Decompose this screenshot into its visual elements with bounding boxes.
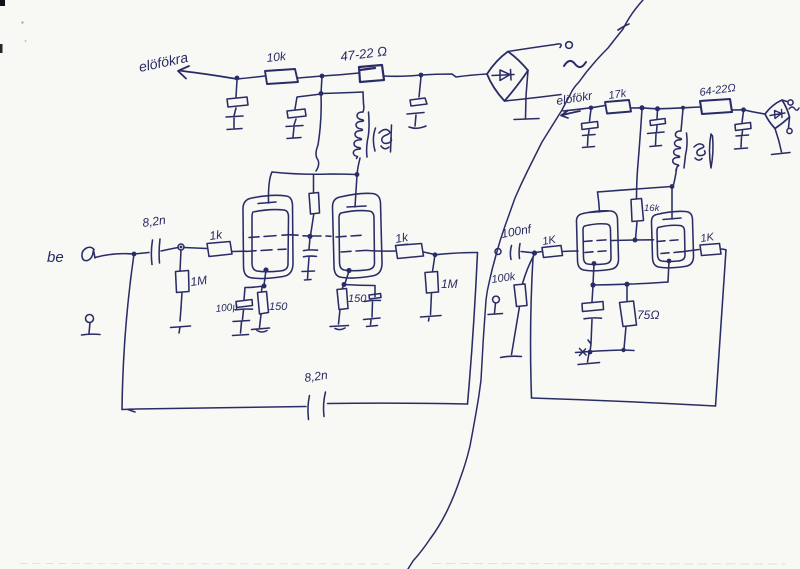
wire grid bus right circuit xyxy=(612,239,654,242)
transformer T2 lead top xyxy=(681,109,683,131)
tube V1 inner plate xyxy=(252,210,289,272)
wire R10 to J11 xyxy=(631,107,642,109)
wire J12 to J13 xyxy=(658,108,684,109)
arrow to előfok xyxy=(178,66,237,79)
ground C7 xyxy=(364,302,381,327)
tube V4 grid dashes lower xyxy=(661,252,682,254)
wire bridge right to ground xyxy=(526,71,529,119)
ground C3 xyxy=(407,113,426,129)
resistor R11 64-22 ohm xyxy=(700,99,732,114)
wire R5 to V1 grid xyxy=(232,250,246,252)
svg-text:1M: 1M xyxy=(189,273,207,289)
feedback loop wire bottom right xyxy=(328,402,468,405)
ground R9 xyxy=(421,316,442,322)
transformer T2 secondary scribble xyxy=(694,134,713,168)
transformer T1 secondary scribble xyxy=(373,128,391,151)
tube V4 envelope xyxy=(652,211,694,268)
node J3 xyxy=(419,73,424,78)
ground C6 xyxy=(233,310,250,336)
resistor R8 1k output xyxy=(366,244,424,259)
node J13 xyxy=(681,106,685,110)
capacitor C7 xyxy=(365,294,382,302)
ground C2 xyxy=(286,119,303,139)
feedback loop wire top xyxy=(435,253,478,255)
ground terminal q xyxy=(86,315,94,323)
loop left side xyxy=(531,253,535,398)
node J8 xyxy=(178,244,184,250)
capacitor C9 xyxy=(582,109,599,130)
page divider wavy line xyxy=(408,0,643,569)
svg-text:10k: 10k xyxy=(266,49,288,65)
ground symbol right xyxy=(578,353,600,365)
wire rail R1-R2 xyxy=(298,73,359,78)
diode D2 symbol xyxy=(770,110,785,119)
cathode node V2 xyxy=(342,282,347,287)
transformer T1 primary coil xyxy=(353,112,363,159)
ground R7 xyxy=(330,326,349,330)
node J5 xyxy=(355,172,360,177)
wire R13 to V3 grid xyxy=(563,250,579,253)
capacitor C12 100nf xyxy=(510,244,520,260)
node J9 xyxy=(433,252,438,257)
wire J11 down to R12 xyxy=(637,109,643,199)
tube V2 grid dashes upper xyxy=(336,235,361,237)
svg-text:1M: 1M xyxy=(441,277,458,291)
feedback loop wire bottom left xyxy=(122,407,306,413)
node J17 xyxy=(532,250,537,255)
tube V3 grid dashes lower xyxy=(585,251,606,253)
wire J7 to C5 xyxy=(134,253,149,255)
input terminal xyxy=(82,247,95,260)
feedback loop wire right xyxy=(468,253,478,405)
wire grid bus right of V1 xyxy=(290,235,308,236)
wire J8 to R5 xyxy=(184,248,207,249)
resistor R7 150 xyxy=(337,285,348,325)
wire C13 down xyxy=(588,320,592,352)
resistor R12 16k xyxy=(631,199,644,240)
node J21 xyxy=(621,348,625,352)
wire J11 to J12 xyxy=(642,108,658,109)
capacitor C3 xyxy=(410,77,427,106)
wire J2 down to J4 xyxy=(321,76,322,94)
transformer T2 bottom lead xyxy=(673,169,677,187)
svg-text:150: 150 xyxy=(269,301,288,313)
svg-text:1K: 1K xyxy=(541,234,557,248)
resistor R1 10k xyxy=(265,69,298,84)
capacitor C10 xyxy=(650,110,666,126)
AC terminal D2 bottom xyxy=(789,117,790,128)
tube V1 grid dashes lower xyxy=(246,249,286,251)
tube V2 inner plate xyxy=(339,211,375,271)
svg-text:17k: 17k xyxy=(608,88,628,102)
tube V1 grid dashes upper xyxy=(249,235,289,238)
node J6 xyxy=(307,234,312,239)
tube V2 envelope xyxy=(333,193,383,278)
wire bridge to AC terminal xyxy=(508,44,561,52)
svg-text:be: be xyxy=(47,249,64,266)
tube V1 cathode xyxy=(263,267,268,272)
ground wire right circuit xyxy=(576,349,635,356)
ground R4 xyxy=(171,308,191,333)
ground D2 xyxy=(772,153,791,155)
wire V4 anode lead xyxy=(663,187,681,220)
node J2 xyxy=(320,74,325,79)
capacitor C4 mid xyxy=(304,238,318,257)
wire J10 to R10 xyxy=(591,106,605,108)
cathode node V1 xyxy=(262,284,267,289)
transformer T1 bottom lead xyxy=(357,158,360,174)
paper speck 2 xyxy=(25,40,27,42)
wire cathode V1 branch left xyxy=(244,286,264,300)
resistor R4 1M input xyxy=(176,250,190,308)
transformer T1 primary lead xyxy=(362,92,365,112)
capacitor C6 100u xyxy=(236,300,253,310)
node J14 xyxy=(741,107,746,112)
input terminal right xyxy=(495,249,501,255)
wire J14 to bridge D2 xyxy=(744,110,766,114)
tube V1 envelope xyxy=(243,195,293,278)
node J15 xyxy=(633,238,638,243)
node J19 xyxy=(624,282,629,287)
ground C11 xyxy=(735,131,749,149)
node J11 xyxy=(640,105,645,110)
resistor R2 47-22 ohm xyxy=(359,65,384,82)
bridge rectifier D1 xyxy=(487,52,528,102)
AC symbol xyxy=(564,61,586,67)
anode bus right xyxy=(598,187,673,193)
wire bridge bottom to right page xyxy=(505,95,562,102)
tube V4 cathode xyxy=(667,259,672,264)
wire rail R2-bridge xyxy=(384,74,487,77)
ground bridge D1 xyxy=(514,119,539,120)
arrow right rail xyxy=(561,111,580,119)
node J20 xyxy=(588,350,593,355)
resistor R16 1K output xyxy=(683,244,721,256)
bottom scan edge xyxy=(20,563,390,566)
capacitor C13 electrolytic xyxy=(582,286,604,319)
AC symbol small xyxy=(789,107,799,110)
svg-text:150: 150 xyxy=(348,293,367,305)
tube V3 envelope xyxy=(577,211,619,271)
ground R14 xyxy=(501,356,522,357)
paper speck 1 xyxy=(21,21,23,23)
svg-text:16k: 16k xyxy=(644,203,661,214)
bridge rectifier D2 xyxy=(765,100,790,129)
wire J4 down to anode bus xyxy=(316,95,321,171)
tube V2 cathode xyxy=(346,268,351,273)
tube V4 inner plate xyxy=(657,225,685,261)
wire input xyxy=(95,254,134,258)
wire C12 to J17 xyxy=(521,252,534,253)
wire rail right 1 xyxy=(563,108,591,111)
resistor R14 100k xyxy=(512,255,535,355)
transformer T2 core xyxy=(684,133,687,168)
svg-text:1K: 1K xyxy=(700,231,716,245)
scan corner mark xyxy=(0,0,5,6)
wire grid bus to V2 xyxy=(313,235,331,237)
wire R8 to J9 xyxy=(424,252,436,255)
node J18 xyxy=(590,282,595,287)
resistor R5 1k input xyxy=(207,242,232,257)
resistor R10 17k xyxy=(605,100,631,114)
ground C9 xyxy=(583,130,596,148)
tube V2 grid dashes lower xyxy=(341,250,366,252)
divider tick xyxy=(618,24,629,30)
loop bottom xyxy=(532,398,716,406)
resistor R15 75 ohm xyxy=(620,284,637,349)
tube V3 inner plate xyxy=(583,224,611,265)
ground R6 xyxy=(252,328,270,332)
capacitor C2 xyxy=(287,94,321,118)
transformer T1 secondary line xyxy=(391,125,392,152)
node J12 xyxy=(655,106,660,111)
wire J4 to transformer top xyxy=(321,92,363,94)
resistor R9 1M output xyxy=(425,255,439,315)
wire V3 anode lead xyxy=(589,192,608,213)
tube V4 grid dashes upper xyxy=(657,240,678,242)
capacitor C1 xyxy=(227,80,248,107)
node J10 xyxy=(589,106,594,111)
tube V3 grid dashes upper xyxy=(584,240,606,242)
AC terminal D2 top xyxy=(782,100,787,102)
resistor R13 1K input xyxy=(536,246,563,258)
diode D1 symbol xyxy=(492,70,514,81)
node J4 xyxy=(319,91,324,96)
wire J13 to R11 xyxy=(683,106,700,109)
resistor R3 grid feed xyxy=(309,175,320,236)
capacitor C5 8,2n xyxy=(151,239,160,265)
cathode bus right circuit xyxy=(593,282,668,285)
wire R11 to J14 xyxy=(732,109,744,111)
wire cathode V2 branch right xyxy=(344,285,375,297)
tube V3 cathode xyxy=(592,261,597,266)
wire R16 to loop xyxy=(721,249,726,250)
AC terminal T1 xyxy=(566,42,573,49)
scan edge tick xyxy=(0,44,3,53)
ground C10 xyxy=(648,126,665,147)
ground C4 xyxy=(302,258,315,281)
transformer T2 coil xyxy=(673,131,682,170)
anode bus wire xyxy=(272,172,357,175)
node J16 xyxy=(670,184,675,189)
node J1 xyxy=(235,76,240,81)
capacitor C11 xyxy=(735,111,751,131)
resistor R6 150 xyxy=(258,287,269,328)
wire top rail left xyxy=(237,76,265,79)
node J7 xyxy=(132,252,137,257)
svg-text:75Ω: 75Ω xyxy=(637,308,659,322)
loop right side xyxy=(716,250,727,406)
ground C1 xyxy=(226,108,243,130)
wire C5 to J8 xyxy=(161,248,178,252)
transformer T1 core xyxy=(367,112,369,157)
wire V1 anode lead xyxy=(258,172,276,204)
wire bridge D2 to ground xyxy=(775,129,782,153)
wire V2 anode lead xyxy=(347,175,366,207)
feedback loop wire left xyxy=(122,254,134,410)
capacitor C8 8,2n loop xyxy=(308,392,326,420)
ground terminal right q xyxy=(493,296,500,303)
